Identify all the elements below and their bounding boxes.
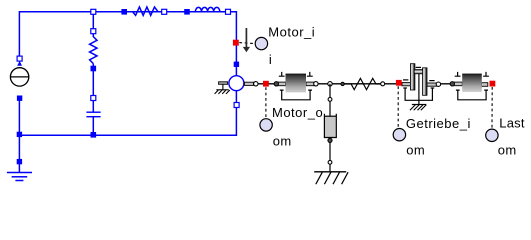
svg-text:om: om (406, 142, 425, 157)
svg-text:Last: Last (499, 115, 525, 130)
svg-text:i: i (269, 52, 272, 67)
svg-text:Getriebe_i: Getriebe_i (406, 116, 471, 131)
svg-text:Motor_i: Motor_i (268, 25, 315, 40)
svg-text:Motor_o: Motor_o (272, 105, 323, 120)
svg-text:om: om (498, 142, 517, 157)
svg-text:om: om (273, 133, 292, 148)
